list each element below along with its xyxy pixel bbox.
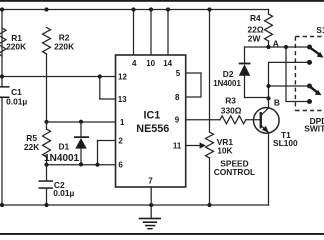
svg-text:B: B	[274, 97, 280, 107]
svg-text:220K: 220K	[54, 41, 74, 51]
node dot rail-pin14	[166, 7, 170, 11]
svg-text:4: 4	[132, 59, 137, 68]
svg-text:2: 2	[118, 137, 123, 146]
svg-text:2W: 2W	[248, 33, 261, 43]
svg-text:SL100: SL100	[273, 138, 298, 148]
wire pin9 to R3	[186, 119, 220, 121]
node dot left rail y76	[0, 74, 4, 78]
node dot pins12/13 branch	[98, 74, 102, 78]
svg-text:12: 12	[118, 73, 127, 82]
node B	[266, 96, 270, 100]
wire node A row	[245, 46, 310, 48]
bottom border frame	[0, 233, 324, 235]
resistor R5	[24, 122, 51, 165]
diode D1	[44, 122, 89, 165]
node dot pin2 branch	[95, 163, 99, 167]
svg-text:5: 5	[176, 69, 181, 78]
node dot R5 bottom	[44, 163, 48, 167]
wire pin14 to rail	[167, 10, 169, 56]
node dot D1 top	[79, 120, 83, 124]
top border frame	[0, 0, 324, 2]
switch contact 4	[307, 99, 312, 104]
node dot rail-VR1	[207, 7, 211, 11]
wire left rail	[1, 10, 3, 206]
svg-text:CONTROL: CONTROL	[214, 167, 255, 177]
svg-text:S1: S1	[316, 25, 324, 35]
DPDT switch S1 dashed box	[295, 25, 324, 133]
wire pin11 wiper	[186, 142, 206, 148]
node dot B-contact3	[266, 84, 270, 88]
node dot gnd C2	[44, 203, 48, 207]
node dot rail-left corner	[0, 7, 4, 11]
svg-text:6: 6	[118, 161, 123, 170]
svg-text:7: 7	[148, 176, 153, 185]
svg-text:D2: D2	[223, 69, 234, 79]
svg-text:NE556: NE556	[136, 123, 169, 135]
svg-text:13: 13	[118, 95, 127, 104]
wire +V top rail	[2, 9, 269, 11]
svg-text:1N4001: 1N4001	[44, 153, 79, 164]
wire pins 2/6 node	[47, 141, 116, 165]
wire R3 to base	[246, 119, 261, 121]
resistor R3	[220, 95, 246, 123]
svg-text:R3: R3	[225, 95, 236, 105]
capacitor C1	[0, 86, 27, 107]
wire pins 5-8 bracket	[186, 73, 201, 97]
transistor T1	[253, 98, 298, 205]
resistor R2	[43, 28, 75, 55]
svg-text:22K: 22K	[24, 142, 39, 152]
ground	[139, 218, 161, 230]
node dot R2/R5	[44, 120, 48, 124]
node dot gnd left	[0, 203, 4, 207]
svg-text:9: 9	[175, 116, 180, 125]
node A	[266, 45, 270, 49]
svg-text:D1: D1	[59, 142, 70, 152]
wire pins 12/13 node	[2, 77, 116, 100]
wire D2 to node B	[245, 97, 269, 99]
potentiometer VR1	[206, 10, 256, 206]
svg-text:IC1: IC1	[144, 109, 161, 121]
wire pin10 to rail	[150, 10, 152, 56]
switch contact 1	[307, 45, 312, 50]
diode D2	[213, 47, 250, 98]
capacitor C2	[39, 165, 75, 205]
wire pin7 to ground	[150, 187, 152, 218]
svg-text:220K: 220K	[6, 42, 26, 52]
wire ground rail	[2, 204, 269, 206]
svg-text:C1: C1	[11, 87, 22, 97]
svg-text:SWITCH: SWITCH	[304, 124, 324, 134]
node dot gnd pin7	[149, 203, 153, 207]
IC U1 (IC1 NE556) box	[116, 55, 186, 187]
svg-text:R4: R4	[250, 13, 261, 23]
svg-text:10: 10	[146, 59, 155, 68]
switch contact 3	[307, 84, 312, 89]
resistor R4	[248, 10, 273, 48]
switch lever 3	[311, 87, 322, 95]
svg-text:10K: 10K	[217, 146, 232, 156]
node dot D1 bottom	[79, 162, 83, 166]
svg-text:11: 11	[173, 142, 182, 151]
resistor R1	[0, 28, 26, 56]
node dot rail-pin10	[149, 7, 153, 11]
node dot rail-R2	[44, 7, 48, 11]
svg-text:1N4001: 1N4001	[213, 79, 241, 88]
wire A to contact4	[286, 47, 310, 102]
svg-text:1: 1	[120, 118, 125, 127]
node dot rail-pin4	[131, 7, 135, 11]
svg-text:14: 14	[163, 59, 172, 68]
switch lever 1	[311, 48, 324, 58]
node dot A-branch	[284, 45, 288, 49]
svg-text:0.01µ: 0.01µ	[53, 188, 74, 198]
wire node B column	[269, 62, 310, 98]
switch contact 2	[307, 60, 312, 65]
wire R2 bottom to node	[46, 54, 48, 122]
svg-text:0.01µ: 0.01µ	[6, 97, 27, 107]
svg-text:8: 8	[175, 93, 180, 102]
wire pin4 to rail	[133, 10, 135, 56]
svg-text:A: A	[273, 38, 279, 48]
node dot gnd VR1	[207, 203, 211, 207]
svg-text:330Ω: 330Ω	[221, 105, 242, 115]
wire pin1 node	[47, 121, 116, 123]
